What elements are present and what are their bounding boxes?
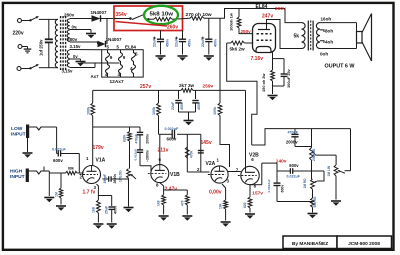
svg-text:5k6 2w: 5k6 2w bbox=[230, 47, 245, 52]
svg-text:1k8: 1k8 bbox=[157, 200, 161, 206]
tap 280v top bbox=[70, 18, 92, 20]
svg-text:INPUT: INPUT bbox=[11, 132, 26, 138]
svg-text:600v: 600v bbox=[281, 185, 285, 193]
wire D1 out bbox=[101, 18, 115, 20]
earth ground mains bbox=[27, 47, 29, 50]
heater V1 heater bbox=[106, 50, 110, 77]
svg-text:25uF: 25uF bbox=[105, 205, 109, 214]
tube V2B bbox=[241, 166, 259, 184]
svg-text:820k: 820k bbox=[123, 134, 127, 142]
svg-text:16oh: 16oh bbox=[321, 17, 332, 22]
ground C filter A bbox=[156, 55, 166, 57]
ground V2B Rk bbox=[245, 213, 255, 215]
red strike line bbox=[116, 22, 168, 27]
capacitor 100uF 25v bbox=[273, 58, 285, 60]
wire V1B plate bbox=[158, 116, 160, 135]
svg-text:0.022uF: 0.022uF bbox=[287, 175, 301, 179]
svg-text:257v: 257v bbox=[140, 84, 151, 90]
svg-text:470pF: 470pF bbox=[288, 130, 299, 134]
heater EL84 heater bbox=[132, 50, 136, 77]
svg-text:3.15v: 3.15v bbox=[70, 44, 82, 49]
resistor 56k bbox=[312, 189, 314, 198]
svg-text:100oh 1w: 100oh 1w bbox=[229, 12, 234, 31]
svg-text:2000v: 2000v bbox=[145, 134, 149, 144]
svg-text:600v: 600v bbox=[53, 158, 63, 163]
junction dot bbox=[129, 17, 132, 20]
svg-text:V2A: V2A bbox=[206, 161, 216, 167]
svg-text:450v: 450v bbox=[187, 38, 191, 47]
svg-text:1uf 250v: 1uf 250v bbox=[39, 39, 44, 56]
ground C filter B bbox=[178, 55, 188, 57]
resistor 100k V1A plate bbox=[92, 90, 94, 103]
svg-text:2800v: 2800v bbox=[113, 174, 117, 184]
pot 1M log volume bbox=[129, 141, 131, 169]
svg-text:259v: 259v bbox=[203, 83, 214, 89]
resistor 820k bbox=[129, 127, 131, 132]
resistor V1B k2 bbox=[185, 195, 189, 205]
pot master 1M bbox=[334, 165, 338, 176]
V2A cathode bbox=[222, 184, 226, 200]
tap 8oh bbox=[320, 30, 324, 32]
ground volume pot bbox=[124, 207, 134, 209]
svg-text:211v: 211v bbox=[158, 148, 169, 154]
svg-text:100k: 100k bbox=[213, 106, 217, 115]
jack LOW bbox=[26, 125, 29, 139]
V1A cathode wire bbox=[97, 184, 112, 196]
svg-text:4oh: 4oh bbox=[325, 40, 333, 45]
speaker driver bbox=[357, 32, 363, 44]
resistor 270oh bbox=[190, 16, 204, 20]
svg-text:0v: 0v bbox=[73, 54, 78, 59]
svg-text:1N4007: 1N4007 bbox=[91, 10, 108, 15]
diode D1 bbox=[92, 15, 101, 21]
svg-text:5: 5 bbox=[135, 52, 138, 57]
svg-text:4: 4 bbox=[118, 72, 121, 77]
T1 core bbox=[60, 16, 62, 70]
red highlight box bbox=[114, 6, 183, 31]
tap 0oh bbox=[320, 48, 357, 50]
svg-text:JCM-800 2008: JCM-800 2008 bbox=[348, 241, 380, 247]
wire cap to V1B grid bbox=[140, 166, 151, 172]
svg-text:1M RG: 1M RG bbox=[303, 178, 307, 189]
svg-text:1N4007: 1N4007 bbox=[106, 37, 123, 42]
T1 heater upper coil bbox=[67, 50, 69, 59]
ground V1B Rk bbox=[159, 215, 169, 217]
wire master wiper loop bbox=[345, 170, 351, 172]
EL84 plate wire bbox=[267, 20, 302, 49]
svg-text:INPUT: INPUT bbox=[10, 174, 25, 180]
title box By MANIBANEZ bbox=[283, 236, 337, 249]
svg-text:EL84: EL84 bbox=[125, 44, 136, 49]
wire master to ground bbox=[335, 176, 337, 200]
pot middle 1M bbox=[311, 160, 313, 179]
svg-text:22uF: 22uF bbox=[171, 101, 175, 110]
heater mid wire bbox=[81, 62, 120, 64]
tap 0v center bbox=[70, 29, 91, 31]
tap 280v lower bbox=[70, 41, 98, 43]
svg-text:354v: 354v bbox=[116, 12, 127, 18]
svg-text:5k8 10w: 5k8 10w bbox=[150, 11, 175, 17]
svg-text:9: 9 bbox=[110, 55, 113, 60]
title box JCM800 bbox=[337, 236, 392, 249]
svg-text:179v: 179v bbox=[93, 145, 104, 151]
capacitor C filter C bbox=[208, 18, 210, 39]
speaker cone bbox=[362, 14, 372, 33]
svg-text:56k RG: 56k RG bbox=[313, 196, 317, 208]
pot treble 200K bbox=[311, 129, 313, 148]
svg-text:22uF: 22uF bbox=[201, 38, 205, 47]
resistor 100oh 1w bbox=[238, 9, 240, 18]
OT secondary bbox=[316, 23, 320, 49]
svg-text:1M: 1M bbox=[54, 192, 58, 197]
resistor V2A Rk bbox=[224, 200, 228, 209]
svg-text:150 oh 2w: 150 oh 2w bbox=[261, 72, 266, 92]
preamp rail 257v bbox=[93, 89, 181, 91]
svg-text:1k8: 1k8 bbox=[91, 207, 95, 213]
svg-text:4: 4 bbox=[130, 66, 133, 71]
svg-text:1MLOG: 1MLOG bbox=[119, 170, 123, 182]
svg-text:LOW: LOW bbox=[11, 126, 23, 132]
svg-text:V1B: V1B bbox=[170, 172, 180, 178]
svg-text:10k: 10k bbox=[218, 203, 222, 209]
V2A plate feed bbox=[218, 103, 222, 116]
switch S1b bbox=[29, 67, 31, 69]
grid wire V2B bbox=[228, 171, 241, 173]
OT core bbox=[307, 21, 309, 51]
wire 250v node bbox=[239, 28, 253, 34]
ground EL84 cathode bbox=[268, 95, 278, 97]
capacitor 0.022uF 600v tone bbox=[277, 170, 290, 172]
svg-text:22uF: 22uF bbox=[175, 38, 179, 47]
resistor 5k6 2w bbox=[227, 42, 231, 44]
svg-text:280v: 280v bbox=[67, 37, 78, 42]
svg-text:HIGH: HIGH bbox=[10, 168, 23, 174]
svg-text:12Ax7: 12Ax7 bbox=[110, 79, 124, 85]
resistor 100k V1B plate bbox=[158, 90, 160, 103]
svg-text:0.0022uF: 0.0022uF bbox=[267, 179, 271, 192]
svg-text:8oh: 8oh bbox=[325, 29, 333, 34]
wire high node down bbox=[48, 173, 50, 196]
tube V1B bbox=[151, 165, 169, 183]
svg-text:9: 9 bbox=[123, 55, 126, 60]
svg-text:OUPUT 6 W: OUPUT 6 W bbox=[325, 63, 355, 69]
svg-text:0.022uF: 0.022uF bbox=[52, 148, 66, 152]
capacitor 0.0022uF 600v bbox=[276, 163, 278, 183]
mains terminal mid bbox=[18, 45, 22, 49]
V2B cathode out bbox=[250, 184, 262, 186]
EL84 internals bbox=[258, 29, 270, 31]
ground heater center bbox=[80, 59, 82, 61]
T1 heater lower coil bbox=[67, 60, 69, 68]
node rectifier bbox=[106, 19, 108, 45]
resistor R 5k8 10w bbox=[149, 18, 154, 20]
svg-text:470: 470 bbox=[180, 200, 184, 206]
capacitor 470pF 2000v bbox=[139, 127, 141, 132]
svg-text:400v: 400v bbox=[113, 205, 117, 214]
svg-text:220v: 220v bbox=[13, 31, 24, 37]
ground V2A Rk bbox=[221, 221, 231, 223]
wire capB to bottom rail bbox=[277, 201, 313, 203]
svg-text:0oh: 0oh bbox=[320, 52, 328, 57]
diode D2 bbox=[98, 41, 106, 47]
svg-text:400v: 400v bbox=[197, 102, 201, 110]
svg-text:280v: 280v bbox=[64, 13, 75, 18]
tube V2A bbox=[211, 166, 228, 183]
resistor 2k7 3w bbox=[181, 89, 193, 93]
wire rail to top bbox=[204, 9, 285, 19]
switch arrow mod bbox=[132, 14, 146, 20]
wire capA to mid wiper bbox=[317, 171, 324, 181]
ground tone bottom bbox=[308, 213, 318, 215]
svg-text:600v: 600v bbox=[167, 137, 177, 142]
svg-text:3,15v: 3,15v bbox=[62, 69, 74, 74]
resistor 1M bbox=[60, 173, 62, 188]
capacitor C filter B bbox=[182, 30, 184, 39]
wire plate V1A bbox=[92, 116, 94, 166]
wire into box bbox=[114, 18, 130, 20]
svg-text:100k: 100k bbox=[86, 106, 90, 115]
tube V1A bbox=[83, 166, 101, 184]
cap 22uF 450v left bbox=[178, 90, 180, 99]
svg-text:EL84: EL84 bbox=[256, 4, 268, 10]
svg-text:68k: 68k bbox=[68, 167, 74, 171]
svg-text:~2800v: ~2800v bbox=[145, 150, 149, 162]
wire V1B k2 bbox=[164, 189, 188, 191]
wire plate node to coupling bbox=[160, 133, 172, 135]
tone top wire bbox=[252, 129, 351, 145]
svg-text:2000v: 2000v bbox=[286, 140, 298, 145]
svg-text:450v: 450v bbox=[165, 38, 169, 47]
wire to RC bbox=[177, 133, 187, 135]
wire low to cap bbox=[56, 127, 58, 154]
svg-text:5k: 5k bbox=[294, 34, 300, 40]
svg-text:200KRG: 200KRG bbox=[312, 148, 316, 161]
wire bbox=[22, 20, 31, 22]
svg-text:0,00v: 0,00v bbox=[209, 190, 222, 196]
coupling node wires bbox=[93, 126, 140, 128]
V1B cathode parts bbox=[160, 183, 164, 195]
cap 22uF 400v right bbox=[195, 90, 197, 99]
T1 secondary HV lower coil bbox=[67, 30, 70, 42]
tap 4oh bbox=[320, 41, 324, 43]
svg-text:400v: 400v bbox=[214, 38, 218, 47]
resistor V1B Rk bbox=[162, 195, 166, 205]
svg-text:470k: 470k bbox=[189, 150, 193, 158]
svg-text:247v: 247v bbox=[262, 14, 273, 20]
tap heater 0v bbox=[70, 58, 81, 60]
wire 259v feed bbox=[227, 43, 257, 145]
switch S1a bbox=[29, 19, 31, 21]
svg-text:145v: 145v bbox=[201, 140, 212, 146]
capacitor V1A Ck bbox=[111, 196, 113, 207]
decoupling ground bbox=[179, 111, 196, 113]
jack HIGH bbox=[26, 169, 29, 183]
wire cap to pot1 bbox=[295, 146, 312, 148]
wire bbox=[22, 46, 28, 48]
svg-text:450v: 450v bbox=[180, 102, 184, 110]
EL84 grid wire bbox=[252, 41, 254, 43]
green ellipse highlight bbox=[144, 6, 178, 24]
V2B cathode bbox=[249, 185, 251, 197]
svg-text:By MANIBAÑEZ: By MANIBAÑEZ bbox=[292, 240, 328, 247]
svg-text:1M LIN: 1M LIN bbox=[327, 165, 331, 176]
tap heater bottom bbox=[70, 67, 95, 69]
cap bright 390pF bbox=[102, 178, 108, 180]
resistor 1k8 V1A cathode bbox=[97, 196, 99, 201]
ground V1A Ck bbox=[107, 223, 117, 225]
capacitor 0.022uF 2800v bbox=[137, 149, 143, 151]
svg-text:0.022uF: 0.022uF bbox=[134, 149, 138, 161]
wire B+ to OT bbox=[285, 9, 302, 23]
mains terminal top bbox=[18, 19, 22, 23]
ground V1A Rk bbox=[93, 223, 103, 225]
EL84 cathode wire bbox=[272, 52, 274, 56]
svg-text:100uF 25v: 100uF 25v bbox=[286, 68, 291, 88]
svg-text:Ax7: Ax7 bbox=[91, 74, 100, 79]
mains terminal bottom bbox=[17, 67, 21, 71]
svg-text:4: 4 bbox=[105, 72, 108, 77]
svg-text:2k7 3w: 2k7 3w bbox=[179, 83, 194, 88]
jack LOW sleeve ground bbox=[27, 138, 29, 152]
capacitor C1 1uf 250v bbox=[45, 38, 53, 40]
tap 16oh bbox=[320, 22, 357, 24]
tap heater top bbox=[70, 49, 102, 51]
cap par bbox=[198, 150, 204, 152]
capacitor 470pF 2000v tone bbox=[294, 129, 296, 134]
svg-text:260v: 260v bbox=[167, 25, 178, 31]
svg-text:22uF: 22uF bbox=[153, 38, 157, 47]
T1 secondary HV upper coil bbox=[67, 19, 70, 29]
resistor 470k bbox=[185, 147, 189, 158]
resistor V2B Rk bbox=[248, 197, 252, 208]
svg-text:820: 820 bbox=[243, 202, 247, 208]
transformer OT primary bbox=[302, 23, 306, 49]
V2B plate feed from rail bbox=[245, 90, 247, 171]
svg-text:7.16v: 7.16v bbox=[251, 56, 264, 62]
ground master pot bbox=[331, 200, 341, 202]
heater block outline bbox=[102, 50, 144, 77]
ground HV center tap bbox=[90, 30, 92, 33]
resistor 150oh 2w bbox=[272, 52, 274, 70]
svg-text:250v: 250v bbox=[241, 29, 252, 34]
tube EL84 outline bbox=[253, 24, 276, 53]
svg-text:600v: 600v bbox=[289, 163, 299, 168]
svg-text:100k: 100k bbox=[152, 106, 156, 115]
capacitor C filter A bbox=[160, 30, 162, 39]
heater V2 heater bbox=[119, 50, 123, 77]
svg-text:260v: 260v bbox=[275, 6, 286, 12]
wire bbox=[21, 68, 30, 70]
svg-text:0v.: 0v. bbox=[72, 25, 78, 30]
svg-text:470pF: 470pF bbox=[134, 134, 138, 144]
transformer T1 primary coil bbox=[47, 18, 58, 20]
ground C filter C bbox=[204, 55, 214, 57]
wire treble wiper to right pot bbox=[316, 154, 336, 156]
svg-text:390pF: 390pF bbox=[103, 174, 107, 184]
ground V1B k2 bbox=[182, 215, 192, 217]
svg-text:1.7 fv: 1.7 fv bbox=[83, 190, 96, 196]
wire cap to grid bbox=[61, 153, 80, 155]
svg-text:V1A: V1A bbox=[96, 158, 106, 164]
svg-text:157v: 157v bbox=[252, 190, 263, 196]
